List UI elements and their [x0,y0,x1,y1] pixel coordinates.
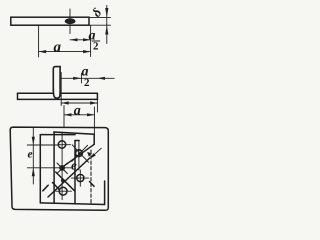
svg-text:a: a [74,104,81,119]
svg-text:e: e [71,158,77,173]
svg-text:a: a [54,40,62,56]
svg-text:2: 2 [84,77,90,89]
svg-text:2: 2 [93,41,99,53]
svg-text:e: e [28,149,33,161]
